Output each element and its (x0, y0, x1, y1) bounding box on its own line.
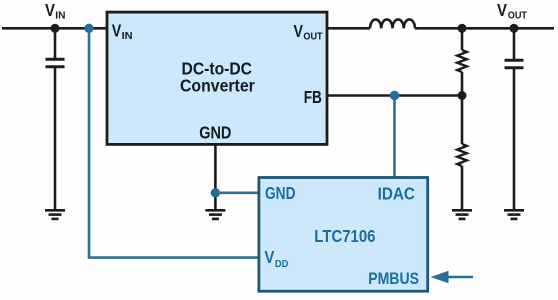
node: blue GND tap (211, 188, 220, 197)
node: FB junction dot (458, 91, 467, 100)
pin VIN of converter (112, 21, 133, 43)
node: feedback divider top junction (458, 24, 467, 33)
wire: blue VDD wire (down from input node, across to LTC7106 VDD) (89, 28, 259, 257)
wire: input cap bottom lead to ground (54, 67, 57, 210)
svg-text:PMBUS: PMBUS (368, 270, 419, 288)
wire: output cap top lead (513, 28, 516, 59)
svg-text:V: V (264, 247, 274, 267)
block U1: DC-to-DC Converter (107, 12, 327, 144)
label DC-to-DC Converter (180, 58, 255, 95)
capacitor: output cap (505, 60, 524, 68)
wire: input line from left edge to converter VIN (2, 27, 107, 30)
wire: VOUT line from converter to inductor (327, 27, 370, 30)
block U2: LTC7106 (259, 178, 428, 292)
capacitor: input bypass cap (46, 59, 65, 67)
svg-text:V: V (294, 21, 304, 41)
resistor: upper feedback resistor (457, 50, 467, 72)
wire: output cap bottom lead (513, 68, 516, 210)
svg-text:GND: GND (265, 183, 296, 203)
svg-text:V: V (112, 21, 122, 41)
svg-text:DD: DD (275, 259, 289, 270)
wire: PMBUS arrow shaft (446, 276, 473, 279)
label VOUT (top right) (497, 0, 527, 22)
svg-text:OUT: OUT (508, 11, 527, 22)
svg-text:V: V (497, 0, 507, 20)
svg-text:IN: IN (55, 11, 65, 22)
svg-text:Converter: Converter (180, 76, 255, 96)
pin VOUT of converter (294, 21, 323, 43)
svg-text:OUT: OUT (303, 32, 322, 43)
pin GND of LTC7106 (265, 183, 296, 203)
ground: converter ground (205, 210, 225, 219)
wire: upper resistor to FB node (461, 72, 464, 96)
svg-text:GND: GND (199, 123, 231, 143)
pin PMBUS of LTC7106 (368, 270, 419, 288)
pin IDAC of LTC7106 (378, 183, 416, 203)
svg-text:IDAC: IDAC (378, 183, 416, 203)
arrow: PMBUS input arrowhead (431, 271, 449, 284)
wire: FB line from converter to divider (327, 94, 462, 97)
svg-text:V: V (45, 0, 55, 20)
svg-text:IN: IN (122, 31, 133, 42)
node VIN junction dot (51, 24, 60, 33)
wire: lower feedback resistor top lead (461, 96, 464, 145)
svg-text:LTC7106: LTC7106 (314, 226, 375, 246)
resistor: lower feedback resistor (457, 144, 467, 166)
wire: input cap top lead (54, 28, 57, 58)
ground: feedback divider ground (452, 210, 472, 219)
label VIN (top left) (45, 0, 66, 22)
label LTC7106 (314, 226, 375, 246)
pin GND of converter (199, 123, 231, 143)
pin FB of converter (304, 87, 322, 107)
wire: blue GND wire to LTC7106 (215, 192, 259, 195)
svg-text:FB: FB (304, 87, 322, 107)
node: IDAC blue tap on FB line (390, 91, 399, 100)
wire: lower resistor to ground (461, 166, 464, 210)
ground: input cap ground (45, 210, 65, 219)
inductor L1 (370, 19, 415, 28)
wire: blue IDAC wire down to LTC7106 (393, 96, 396, 178)
wire: inductor to VOUT rail (415, 27, 554, 30)
pin VDD of LTC7106 (264, 247, 288, 270)
wire: converter GND down lead (214, 144, 217, 210)
node: VOUT output junction (510, 24, 519, 33)
wire: top of upper feedback resistor (461, 28, 464, 50)
ground: output cap ground (504, 210, 524, 219)
node blue junction (VDD tap) (84, 24, 93, 33)
